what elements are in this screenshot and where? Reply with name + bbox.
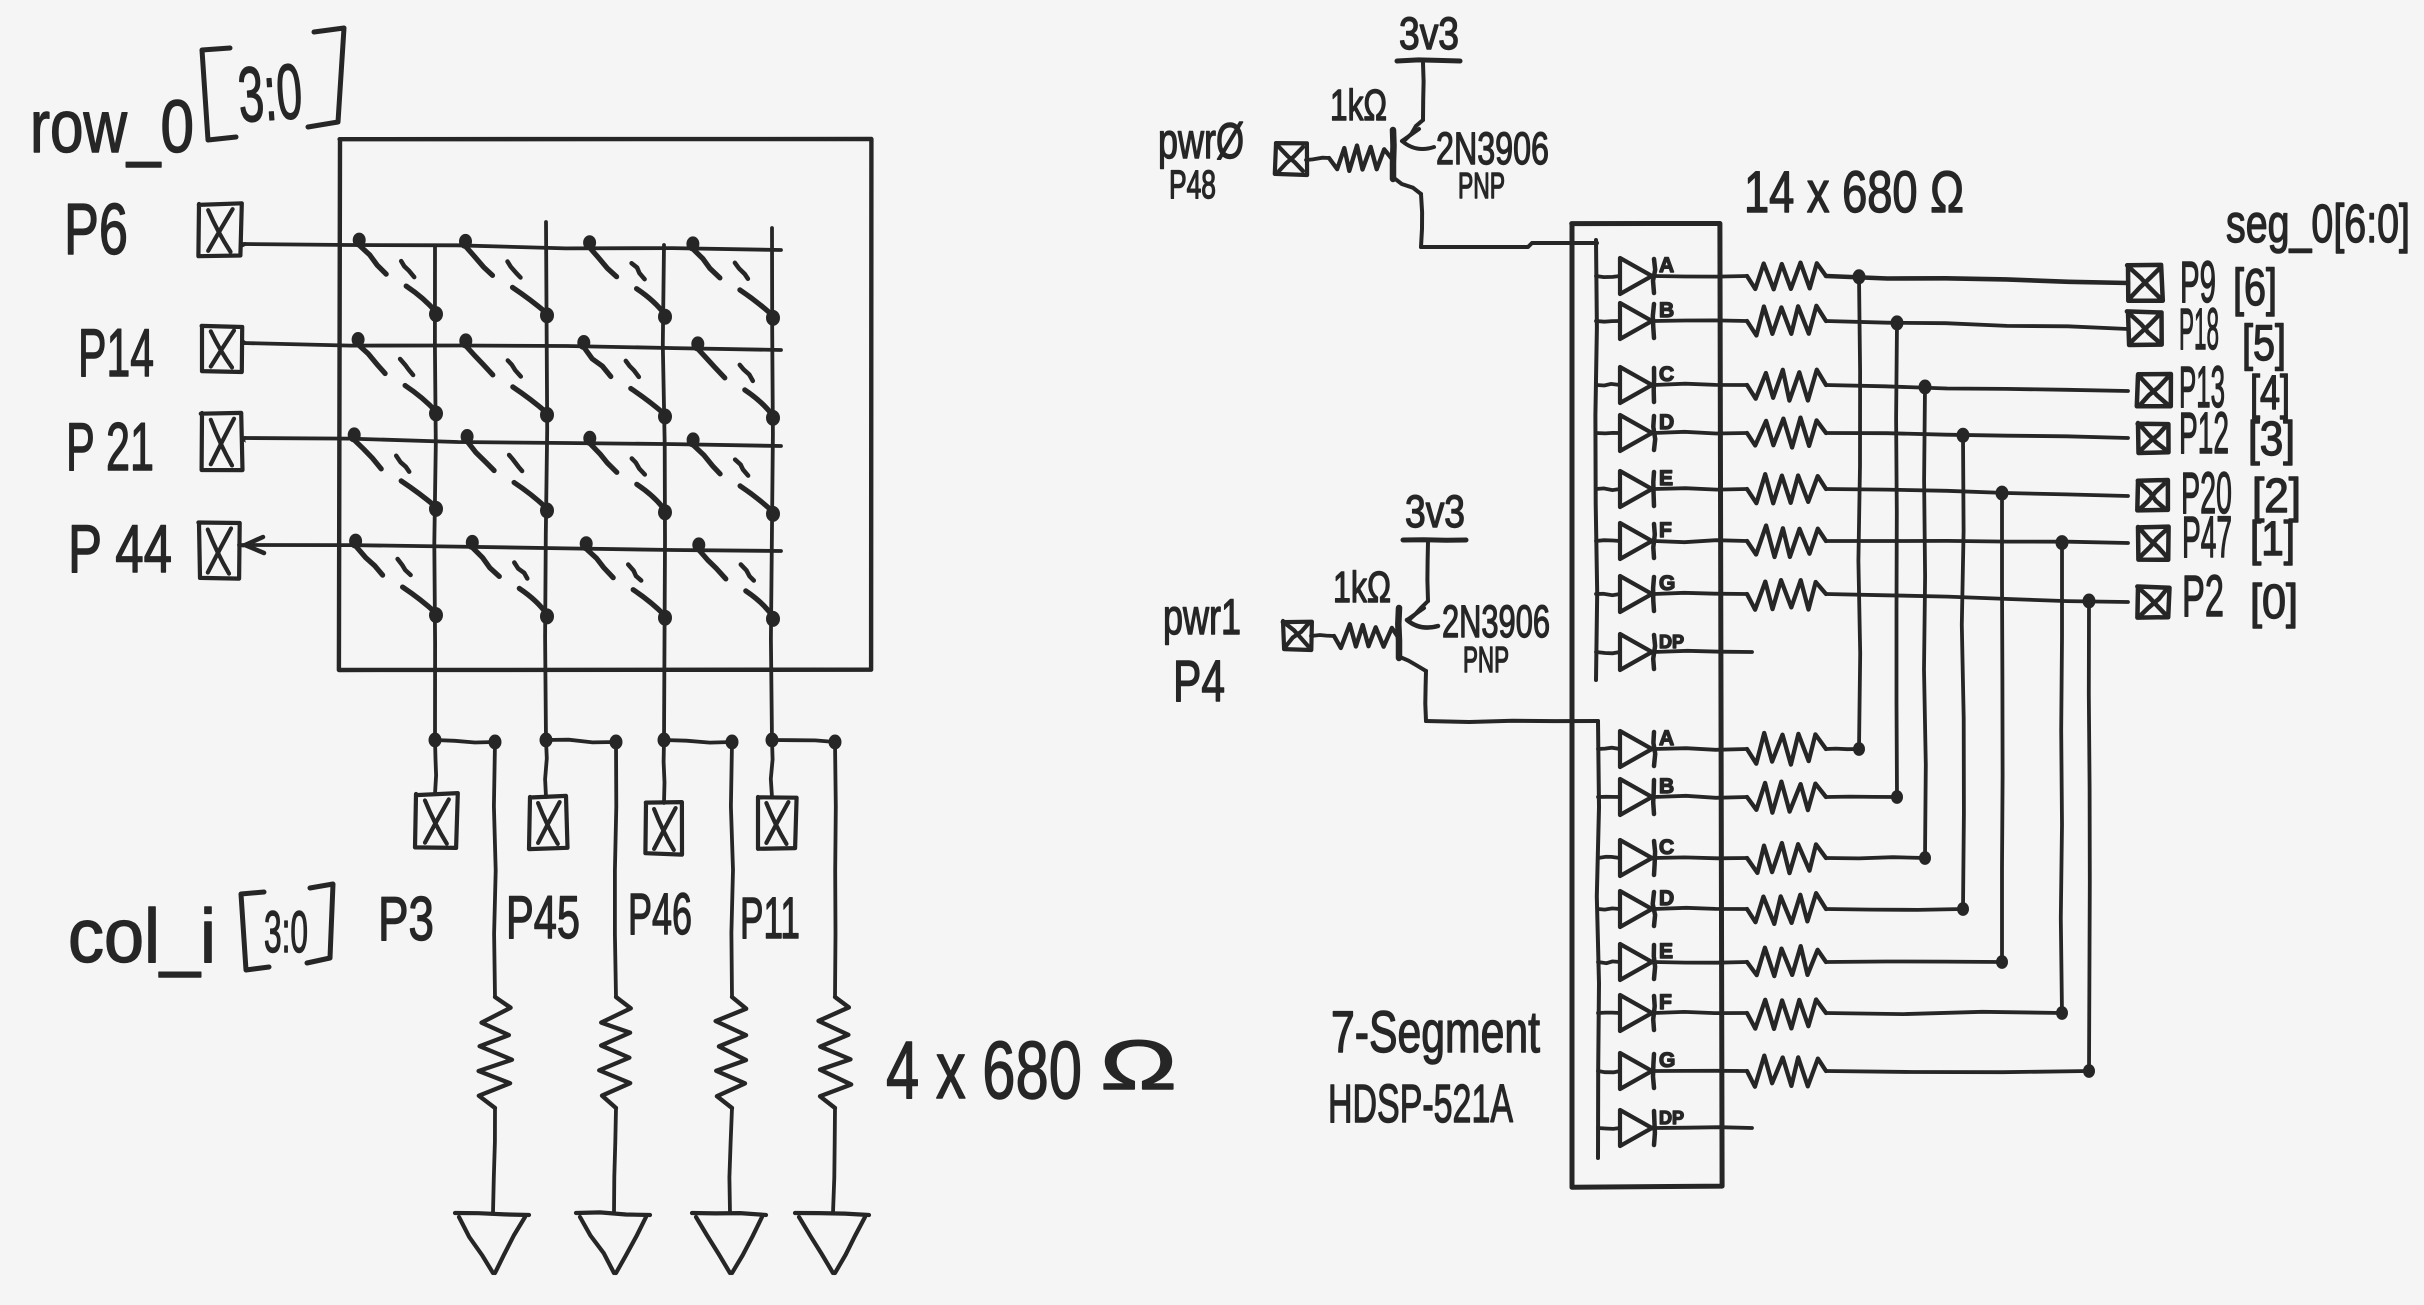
svg-text:pwrØ: pwrØ xyxy=(1158,113,1244,169)
svg-text:P 44: P 44 xyxy=(68,511,172,587)
svg-text:PNP: PNP xyxy=(1463,639,1509,680)
svg-text:[3]: [3] xyxy=(2248,413,2295,466)
svg-text:[1]: [1] xyxy=(2250,513,2295,566)
svg-text:HDSP-521A: HDSP-521A xyxy=(1328,1074,1513,1134)
svg-text:1kΩ: 1kΩ xyxy=(1333,563,1391,612)
svg-text:P 21: P 21 xyxy=(66,409,154,485)
svg-text:14 x 680 Ω: 14 x 680 Ω xyxy=(1744,160,1964,225)
svg-text:DP: DP xyxy=(1659,632,1684,652)
svg-text:G: G xyxy=(1659,1049,1675,1072)
svg-text:3v3: 3v3 xyxy=(1405,486,1465,537)
svg-text:P46: P46 xyxy=(628,882,692,947)
svg-text:B: B xyxy=(1659,299,1674,322)
svg-text:A: A xyxy=(1659,254,1674,277)
svg-text:C: C xyxy=(1659,836,1674,859)
svg-text:3v3: 3v3 xyxy=(1399,8,1459,59)
svg-text:A: A xyxy=(1659,727,1674,750)
svg-text:P11: P11 xyxy=(740,886,800,951)
svg-text:F: F xyxy=(1659,519,1672,542)
svg-text:P18: P18 xyxy=(2179,297,2219,362)
svg-text:P4: P4 xyxy=(1173,649,1225,714)
svg-text:[6]: [6] xyxy=(2233,259,2277,317)
svg-text:Ω: Ω xyxy=(1100,1026,1177,1104)
svg-text:7-Segment: 7-Segment xyxy=(1331,1000,1540,1065)
svg-text:P3: P3 xyxy=(378,885,434,954)
svg-text:PNP: PNP xyxy=(1458,165,1505,206)
svg-text:1kΩ: 1kΩ xyxy=(1330,81,1387,130)
svg-text:P47: P47 xyxy=(2182,505,2232,570)
svg-text:4 x 680: 4 x 680 xyxy=(886,1025,1082,1116)
svg-text:[0]: [0] xyxy=(2250,576,2298,629)
svg-text:P48: P48 xyxy=(1169,163,1216,207)
svg-text:E: E xyxy=(1659,940,1673,963)
svg-text:[5]: [5] xyxy=(2242,315,2286,371)
svg-text:col_i: col_i xyxy=(68,894,216,979)
svg-text:P6: P6 xyxy=(64,190,128,270)
svg-text:DP: DP xyxy=(1659,1108,1684,1128)
svg-text:P2: P2 xyxy=(2182,564,2224,629)
svg-text:pwr1: pwr1 xyxy=(1163,589,1241,645)
svg-text:3:0: 3:0 xyxy=(235,47,305,139)
svg-text:P14: P14 xyxy=(78,315,154,391)
svg-text:3:0: 3:0 xyxy=(264,900,308,965)
svg-text:P45: P45 xyxy=(506,884,580,951)
svg-text:P12: P12 xyxy=(2179,401,2229,466)
svg-text:row_0: row_0 xyxy=(30,85,194,168)
svg-text:seg_0[6:0]: seg_0[6:0] xyxy=(2226,194,2410,254)
svg-text:E: E xyxy=(1659,467,1673,490)
